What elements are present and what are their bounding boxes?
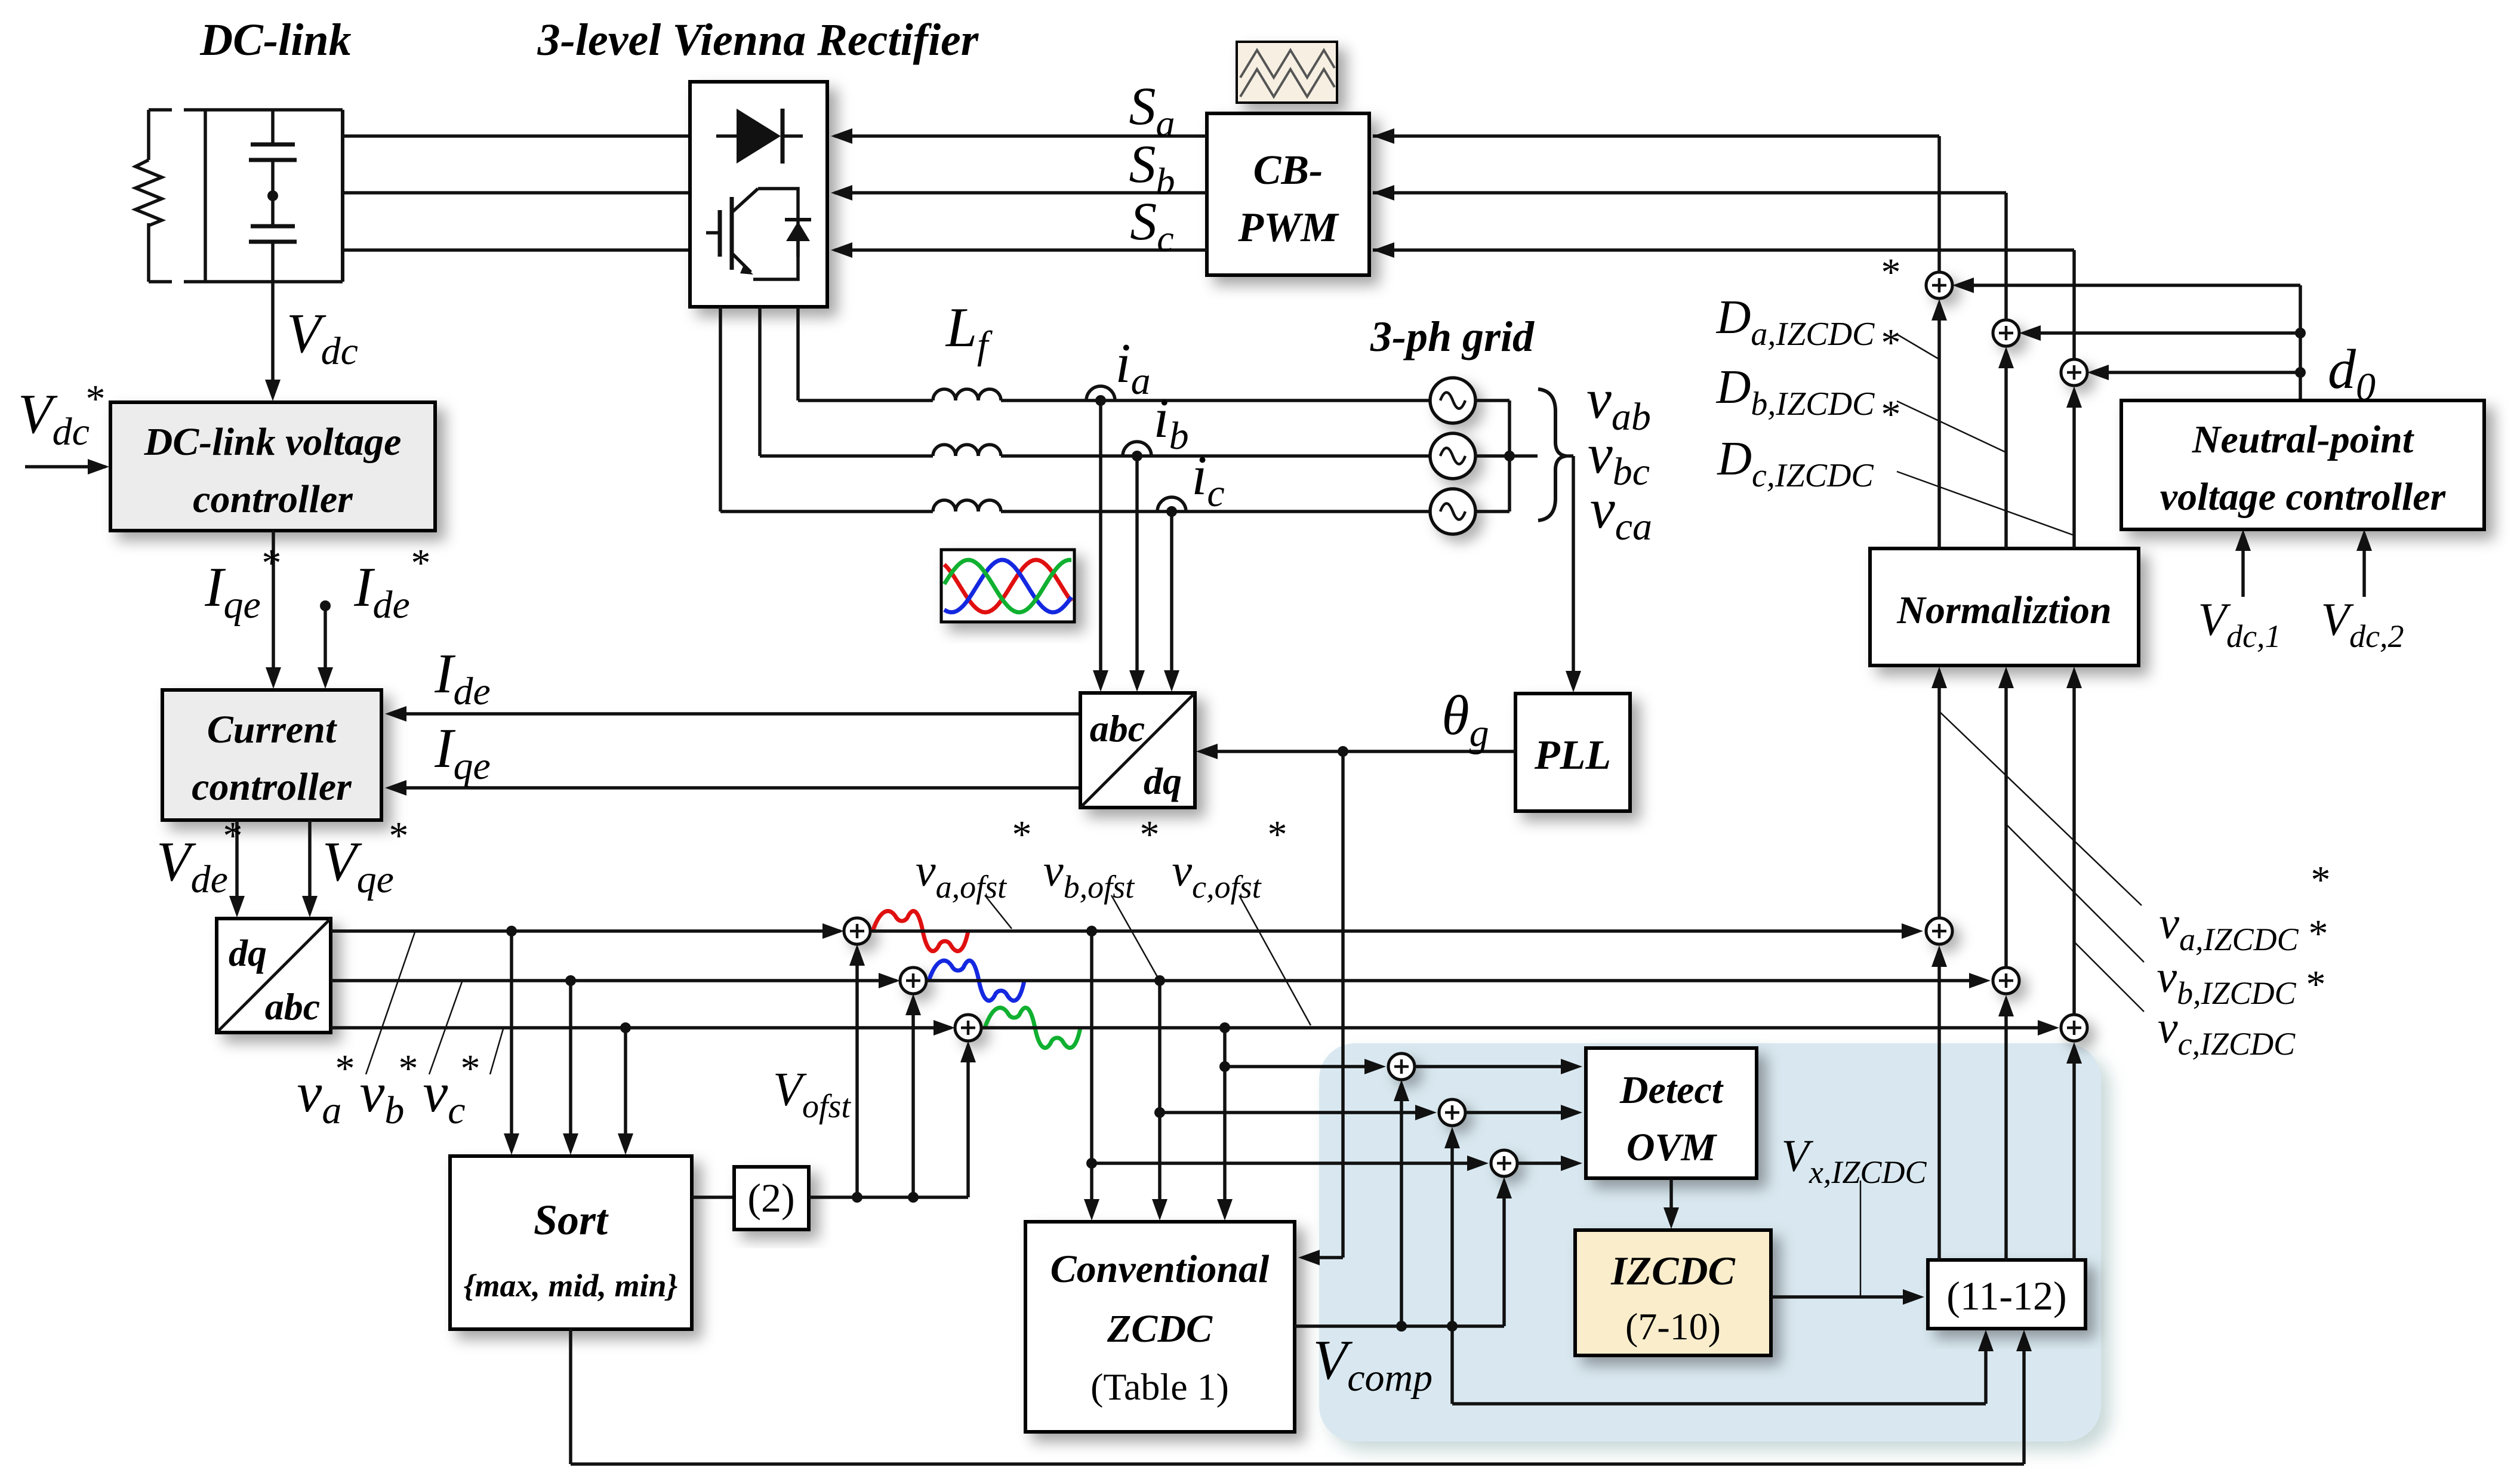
svg-text:OVM: OVM xyxy=(1626,1126,1718,1169)
wire rectifier leg b xyxy=(758,307,762,456)
svg-text:*: * xyxy=(223,814,243,858)
label Da IZCDC xyxy=(1716,251,1901,353)
wire Sc bus right xyxy=(1373,242,2074,258)
wire vc to Sort xyxy=(618,1028,633,1155)
current sensor ia xyxy=(1086,386,1115,406)
node theta-g xyxy=(1338,746,1348,757)
leader va IZCDC xyxy=(1939,711,2142,905)
Neutral-point voltage controller box xyxy=(2121,400,2484,529)
svg-text:PLL: PLL xyxy=(1534,732,1611,778)
Conventional ZCDC box xyxy=(1025,1222,1295,1432)
leader Da IZCDC xyxy=(1897,334,1939,359)
dq-abc transform box xyxy=(217,919,331,1033)
svg-text:IZCDC: IZCDC xyxy=(1610,1248,1735,1293)
leader va ofst xyxy=(985,895,1012,929)
IZCDC scheme shaded region xyxy=(1319,1043,2101,1441)
node va ofst tap xyxy=(1086,926,1097,936)
wire vb IZCDC to Normalization xyxy=(1998,667,2014,967)
node Vofst a xyxy=(852,1192,862,1203)
label Vqe ref xyxy=(322,814,408,901)
wire Iqe feedback xyxy=(385,780,1080,796)
node Vofst b xyxy=(908,1192,919,1203)
label ia xyxy=(1115,332,1150,403)
waveform vb ofst (blue) xyxy=(929,960,1024,1000)
label ic xyxy=(1191,445,1224,515)
node vc ofst tap xyxy=(1219,1022,1230,1033)
adder vc IZCDC xyxy=(2061,1015,2087,1041)
wire Da up xyxy=(1937,136,1941,272)
wire Vcomp riser2 xyxy=(1444,1127,1460,1326)
wire Iqe ref xyxy=(266,531,281,689)
node vb ref to sort xyxy=(565,975,576,986)
wire va ref line xyxy=(331,923,844,939)
label Vdc xyxy=(286,303,358,373)
label Neutral-point voltage controller xyxy=(2160,418,2447,519)
IZCDC box xyxy=(1575,1230,1771,1355)
capacitor C2 xyxy=(249,201,297,282)
svg-text:3-level Vienna Rectifier: 3-level Vienna Rectifier xyxy=(537,15,979,65)
label Normalization xyxy=(1896,588,2111,632)
svg-text:(2): (2) xyxy=(747,1175,794,1221)
svg-text:*: * xyxy=(1012,813,1032,856)
wire Sb xyxy=(831,185,1207,201)
wire va ofst line xyxy=(870,923,1923,939)
wire (11-12) up b xyxy=(1998,995,2014,1260)
wire phase b with inductor Lf xyxy=(760,445,1430,456)
title 3-level Vienna Rectifier xyxy=(537,15,979,65)
svg-text:(Table 1): (Table 1) xyxy=(1090,1366,1229,1408)
wire d0 to Dc xyxy=(2087,365,2300,380)
svg-text:*: * xyxy=(1881,251,1901,294)
svg-text:Sort: Sort xyxy=(534,1196,609,1244)
Detect OVM box xyxy=(1586,1048,1757,1178)
node Vcomp a xyxy=(1396,1321,1407,1332)
label va IZCDC xyxy=(2159,858,2330,957)
label Vde ref xyxy=(156,814,242,901)
wire Vcomp to (11-12) xyxy=(1452,1326,1994,1404)
wire vc tap down xyxy=(1217,1028,1233,1221)
node va OVM tap xyxy=(1086,1158,1097,1169)
wire phase a with inductor Lf xyxy=(798,389,1430,400)
wire vb to Sort xyxy=(563,981,578,1155)
label ib xyxy=(1153,387,1188,458)
wire Vqe ref xyxy=(302,820,318,917)
svg-text:*: * xyxy=(399,1047,418,1090)
leader vc IZCDC xyxy=(2074,942,2144,1012)
current sensor ib xyxy=(1123,442,1151,461)
label abc (dq-abc box) xyxy=(265,985,320,1028)
wire vb ref line xyxy=(331,973,900,988)
svg-text:*: * xyxy=(461,1047,480,1090)
wire Sc xyxy=(831,242,1207,258)
svg-text:(11-12): (11-12) xyxy=(1946,1273,2066,1318)
leader Vx IZCDC xyxy=(1860,1181,1862,1297)
wire vc to OVM adder1 xyxy=(1225,1059,1386,1074)
wire Db up xyxy=(2004,193,2008,320)
waveform va ofst (red) xyxy=(873,911,968,951)
wire Ide ref xyxy=(318,600,333,689)
wire ia measurement xyxy=(1093,400,1108,692)
adder Db xyxy=(1993,320,2019,346)
wire OVM adder1 out xyxy=(1415,1059,1582,1074)
svg-text:abc: abc xyxy=(1090,707,1145,750)
wire theta-g xyxy=(1196,744,1515,759)
label vab xyxy=(1586,368,1651,439)
label Ide xyxy=(434,643,491,713)
leader vb ofst xyxy=(1111,895,1159,979)
wire Vdc ref input xyxy=(25,459,109,474)
wire Dc up xyxy=(2072,250,2076,359)
label DC-link voltage controller xyxy=(144,420,402,521)
svg-text:voltage controller: voltage controller xyxy=(2160,475,2447,519)
svg-text:abc: abc xyxy=(265,985,320,1028)
label Dc IZCDC xyxy=(1717,393,1900,494)
node vb OVM tap xyxy=(1154,1107,1165,1118)
DC-link box xyxy=(205,110,343,282)
node va ref to sort xyxy=(506,926,517,936)
label theta-g xyxy=(1441,685,1489,755)
wire va tap down xyxy=(1084,931,1099,1221)
wire Vofst riser c xyxy=(960,1041,976,1197)
wire OVM adder3 out xyxy=(1517,1155,1582,1171)
wire Vdc2 input xyxy=(2356,529,2372,597)
label vb IZCDC xyxy=(2157,912,2328,1011)
wire Vofst riser b xyxy=(905,994,921,1197)
wire Sort to (11-12) xyxy=(571,1329,2032,1464)
wire va IZCDC to Normalization xyxy=(1931,667,1947,918)
label Db IZCDC xyxy=(1716,321,1901,423)
wire Vcomp xyxy=(1295,1324,1504,1328)
svg-text:*: * xyxy=(2306,963,2326,1006)
equation (2) box xyxy=(734,1167,809,1230)
label Vcomp xyxy=(1313,1329,1432,1400)
wire Sa bus right xyxy=(1373,128,1939,144)
svg-text:*: * xyxy=(389,814,409,858)
label dq (dq-abc box) xyxy=(229,932,267,974)
leader Db IZCDC xyxy=(1897,401,2006,452)
rgb waveform icon box xyxy=(941,550,1074,622)
wire rectifier leg c xyxy=(719,307,722,511)
label vc ofst xyxy=(1172,813,1287,905)
label Detect OVM xyxy=(1619,1068,1724,1169)
node vc OVM tap xyxy=(1219,1061,1230,1072)
wire Sa xyxy=(831,128,1207,144)
wire vc ref line xyxy=(331,1020,955,1036)
svg-text:dq: dq xyxy=(1144,760,1182,802)
wire vb ofst line xyxy=(926,973,1991,988)
svg-text:*: * xyxy=(335,1047,355,1090)
DC-link bracket with resistor xyxy=(135,110,205,282)
rgb waveform blue xyxy=(944,560,1071,612)
AC source b xyxy=(1430,433,1475,479)
CB-PWM box xyxy=(1207,113,1369,275)
svg-text:controller: controller xyxy=(193,477,353,521)
svg-text:*: * xyxy=(1881,321,1901,365)
wire Normalization up c xyxy=(2066,386,2082,549)
wire IZCDC to (11-12) xyxy=(1771,1289,1924,1305)
DC-link voltage controller box xyxy=(110,402,435,531)
svg-text:DC-link: DC-link xyxy=(199,15,351,65)
label Sc xyxy=(1130,192,1173,260)
label Ide ref xyxy=(353,541,430,627)
node vc ref to sort xyxy=(620,1022,631,1033)
label va ref xyxy=(297,1047,355,1132)
label d0 xyxy=(2328,338,2376,409)
svg-text:*: * xyxy=(262,541,282,585)
wire (11-12) up a xyxy=(1931,945,1947,1260)
Vienna rectifier box xyxy=(690,82,827,307)
wire Vofst line xyxy=(809,1195,968,1199)
wire Vofst riser a xyxy=(849,944,865,1197)
wire Sort to (2) xyxy=(692,1195,734,1199)
svg-text:Neutral-point: Neutral-point xyxy=(2192,418,2414,461)
svg-text:Detect: Detect xyxy=(1619,1068,1724,1112)
leader vb ref xyxy=(429,982,462,1074)
wire Normalization up a xyxy=(1931,299,1947,549)
label Vdc ref xyxy=(18,377,105,454)
rgb waveform green xyxy=(944,560,1071,612)
IGBT symbol (rectifier) xyxy=(706,189,798,279)
wire vb to OVM adder2 xyxy=(1160,1105,1437,1120)
svg-text:Conventional: Conventional xyxy=(1050,1247,1270,1291)
wire va to Sort xyxy=(504,931,519,1155)
diode symbol (rectifier) xyxy=(716,109,803,164)
label dq (abc-dq box) xyxy=(1144,760,1182,802)
wire dc bus b (left) xyxy=(343,191,690,195)
wire Vde ref xyxy=(229,820,245,917)
Sort box xyxy=(450,1156,692,1329)
svg-text:*: * xyxy=(86,377,106,421)
capacitor C1 xyxy=(249,110,297,191)
node d0 c xyxy=(2295,367,2306,378)
adder OVM 1 xyxy=(1388,1053,1415,1080)
leader va ref xyxy=(366,932,415,1074)
svg-text:Current: Current xyxy=(207,708,337,751)
label Current controller xyxy=(192,708,352,809)
label Vdc1 xyxy=(2198,593,2281,654)
title DC-link xyxy=(199,15,351,65)
wire grid tie xyxy=(1475,400,1538,511)
carrier icon box xyxy=(1237,42,1337,103)
node vb ofst tap xyxy=(1154,975,1165,986)
label (11-12) xyxy=(1946,1273,2066,1318)
label Vofst xyxy=(773,1064,851,1125)
wire Vdc xyxy=(265,282,281,401)
leader Dc IZCDC xyxy=(1897,472,2074,535)
label Sort xyxy=(534,1196,609,1244)
adder OVM 3 xyxy=(1491,1150,1517,1176)
adder va+Vofst xyxy=(844,918,870,944)
svg-text:PWM: PWM xyxy=(1237,205,1339,251)
abc-dq transform box xyxy=(1080,693,1195,808)
wire thetag branch to ZCDC xyxy=(1298,751,1343,1265)
wire vbc to PLL xyxy=(1564,456,1581,692)
AC source c xyxy=(1430,489,1475,534)
leader vc ofst xyxy=(1239,895,1311,1025)
leader vb IZCDC xyxy=(2006,824,2144,962)
wire rectifier leg a xyxy=(796,307,800,400)
carrier zigzag 1 xyxy=(1240,50,1335,78)
svg-text:*: * xyxy=(1268,813,1287,856)
label vc ref xyxy=(423,1047,480,1132)
carrier zigzag 2 xyxy=(1240,69,1335,97)
PLL box xyxy=(1515,694,1630,811)
label Vx IZCDC xyxy=(1782,1131,1927,1190)
label max mid min xyxy=(464,1268,678,1304)
label CB-PWM xyxy=(1237,147,1339,251)
grid tie node xyxy=(1504,451,1515,461)
label PLL xyxy=(1534,732,1611,778)
node d0 b xyxy=(2295,328,2306,338)
label vc IZCDC xyxy=(2158,963,2326,1062)
current sensor ic xyxy=(1157,497,1186,517)
label Vdc2 xyxy=(2321,593,2404,654)
label Iqe ref xyxy=(204,541,281,627)
wire Vcomp riser3 xyxy=(1496,1177,1512,1326)
wire ic measurement xyxy=(1164,511,1179,692)
adder Da xyxy=(1926,272,1952,298)
leader vc ref xyxy=(490,1029,503,1074)
label vb ref xyxy=(360,1047,418,1132)
wire Sb bus right xyxy=(1373,185,2006,201)
label va ofst xyxy=(916,813,1032,905)
wire ib measurement xyxy=(1129,456,1145,692)
wire dc bus c (left) xyxy=(343,248,690,252)
AC source a xyxy=(1430,378,1475,423)
wire Ide feedback xyxy=(385,706,1080,722)
wire OVM adder2 out xyxy=(1465,1105,1582,1120)
label Sb xyxy=(1129,135,1175,202)
antiparallel diode (rectifier) xyxy=(785,220,811,257)
label Lf xyxy=(945,297,993,367)
adder vc+Vofst xyxy=(955,1015,981,1041)
wire vb tap down xyxy=(1152,981,1167,1221)
label vb ofst xyxy=(1043,813,1160,905)
svg-text:(7-10): (7-10) xyxy=(1625,1305,1721,1348)
svg-text:dq: dq xyxy=(229,932,267,974)
wire Vdc1 input xyxy=(2235,529,2251,597)
brace grid voltages xyxy=(1538,389,1566,520)
label Sa xyxy=(1129,77,1175,144)
label (2) xyxy=(747,1175,794,1221)
label abc (abc-dq box) xyxy=(1090,707,1145,750)
svg-text:*: * xyxy=(411,541,431,585)
label vbc xyxy=(1588,423,1650,494)
title 3-ph grid xyxy=(1370,313,1535,360)
wire Normalization up b xyxy=(1998,347,2014,549)
wire d0 to Db xyxy=(2019,325,2300,341)
label vca xyxy=(1590,478,1652,549)
Current controller box xyxy=(162,690,381,820)
waveform vc ofst (green) xyxy=(985,1007,1080,1047)
svg-text:Normaliztion: Normaliztion xyxy=(1896,588,2111,632)
wire OVM to IZCDC xyxy=(1663,1178,1679,1229)
node Vcomp b xyxy=(1447,1321,1458,1332)
svg-text:controller: controller xyxy=(192,765,352,809)
wire Vcomp riser1 xyxy=(1394,1080,1409,1326)
adder vb+Vofst xyxy=(900,967,926,994)
adder Dc xyxy=(2061,359,2087,386)
rgb waveform red xyxy=(944,560,1071,612)
svg-text:*: * xyxy=(1140,813,1160,856)
svg-text:3-ph grid: 3-ph grid xyxy=(1370,313,1535,360)
svg-text:*: * xyxy=(2309,912,2328,956)
wire va to OVM adder3 xyxy=(1092,1155,1489,1171)
label Iqe xyxy=(434,717,491,788)
wire vc ofst line xyxy=(981,1020,2059,1036)
wire phase c with inductor Lf xyxy=(720,500,1430,511)
wire vc IZCDC to Normalization xyxy=(2066,667,2082,1015)
svg-text:DC-link voltage: DC-link voltage xyxy=(144,420,402,464)
wire dc bus a (left) xyxy=(343,134,690,138)
label Conventional ZCDC xyxy=(1050,1247,1270,1408)
svg-text:*: * xyxy=(2311,858,2331,902)
svg-text:CB-: CB- xyxy=(1253,147,1323,193)
svg-text:ZCDC: ZCDC xyxy=(1107,1307,1213,1351)
label IZCDC xyxy=(1610,1248,1735,1348)
svg-text:{max, mid, min}: {max, mid, min} xyxy=(464,1268,678,1304)
svg-text:*: * xyxy=(1881,393,1901,436)
adder OVM 2 xyxy=(1439,1099,1465,1126)
neutral point node xyxy=(267,190,278,201)
equation (11-12) box xyxy=(1928,1260,2085,1329)
adder va IZCDC xyxy=(1926,918,1952,944)
adder vb IZCDC xyxy=(1993,967,2019,994)
wire (11-12) up c xyxy=(2066,1042,2082,1260)
wire d0 xyxy=(1952,278,2300,400)
Normalization box xyxy=(1870,549,2139,665)
